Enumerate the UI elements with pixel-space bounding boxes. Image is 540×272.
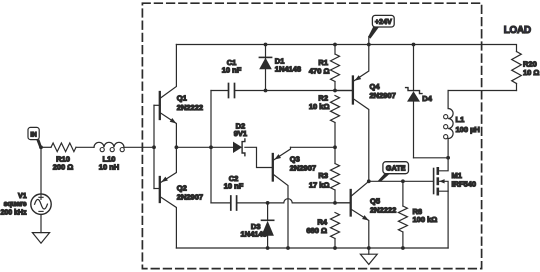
svg-text:10 nH: 10 nH	[99, 163, 119, 172]
capacitor C1	[222, 58, 242, 98]
transistor Q2 2N2907 (PNP)	[154, 147, 203, 248]
wire IN node down to V1	[40, 147, 42, 194]
svg-text:Q3: Q3	[290, 154, 300, 163]
capacitor C2	[224, 174, 244, 210]
wire IN node to R10	[39, 145, 51, 149]
svg-text:10 kΩ: 10 kΩ	[309, 102, 330, 111]
resistor R4	[306, 213, 339, 250]
svg-text:2N2907: 2N2907	[290, 164, 316, 173]
svg-text:IN: IN	[30, 131, 37, 138]
svg-text:Q4: Q4	[370, 82, 381, 91]
svg-text:Q2: Q2	[177, 184, 187, 193]
transistor Q4 2N2907 (PNP)	[335, 45, 396, 182]
zener diode D2 9V1	[233, 122, 247, 156]
svg-text:17 kΩ: 17 kΩ	[309, 181, 330, 190]
wire L10 to base node	[124, 145, 156, 149]
inductor L1	[444, 91, 480, 158]
svg-text:2N2907: 2N2907	[370, 91, 396, 100]
ground (source side)	[32, 233, 49, 244]
svg-text:+24V: +24V	[375, 19, 392, 26]
wire row C2 to Q5 base (with hop over Q3 collector)	[211, 199, 351, 205]
svg-text:10 Ω: 10 Ω	[523, 68, 539, 77]
svg-text:2N2222: 2N2222	[370, 206, 396, 215]
wire ground rail (bottom)	[176, 246, 448, 250]
resistor R3	[309, 147, 340, 203]
subcircuit boundary (dashed box)	[142, 3, 481, 268]
transistor Q3 2N2907 (PNP)	[273, 147, 316, 248]
wire D4 to drain node	[414, 156, 451, 160]
resistor R10	[51, 143, 76, 172]
svg-text:9V1: 9V1	[234, 129, 247, 138]
resistor R20	[512, 52, 540, 91]
inductor L10	[94, 142, 124, 171]
svg-text:L1: L1	[456, 115, 465, 124]
svg-text:1N4148: 1N4148	[241, 230, 267, 239]
svg-text:D4: D4	[422, 94, 432, 103]
wire row between C1 and Q4 base	[211, 89, 353, 93]
svg-text:square: square	[4, 201, 27, 208]
svg-text:IRF540: IRF540	[452, 179, 477, 188]
svg-text:470 Ω: 470 Ω	[309, 66, 330, 75]
svg-text:680 Ω: 680 Ω	[306, 226, 327, 235]
svg-text:Q1: Q1	[177, 94, 187, 103]
transistor Q5 2N2222 (NPN)	[335, 181, 396, 248]
svg-text:100 kΩ: 100 kΩ	[413, 215, 438, 224]
resistor R6	[398, 181, 437, 250]
wire C1/C2 left branch	[210, 91, 212, 203]
wire V1 to ground	[40, 214, 42, 232]
svg-text:10 nF: 10 nF	[224, 182, 244, 191]
wire +24V top rail	[176, 45, 516, 52]
svg-text:200 kHz: 200 kHz	[1, 210, 28, 217]
power flag +24V	[367, 15, 394, 46]
svg-text:2N2907: 2N2907	[177, 193, 203, 202]
resistor R1	[309, 43, 340, 91]
svg-text:GATE: GATE	[386, 165, 406, 173]
svg-text:10 nF: 10 nF	[222, 66, 242, 75]
svg-text:R3: R3	[318, 171, 328, 180]
svg-text:V1: V1	[18, 193, 27, 200]
wire base rail of Q1/Q2	[153, 105, 155, 188]
svg-text:1N4148: 1N4148	[275, 64, 301, 73]
wire gate row	[367, 179, 434, 183]
svg-text:100 µH: 100 µH	[456, 125, 480, 134]
svg-text:Q5: Q5	[370, 196, 380, 205]
svg-text:2N2222: 2N2222	[177, 103, 203, 112]
diode D1 1N4148	[259, 43, 301, 93]
wire Q3 emitter to R2/R3 node	[291, 145, 337, 149]
svg-text:LOAD: LOAD	[504, 25, 531, 36]
voltage source V1	[1, 193, 52, 217]
transistor Q1 2N2222 (NPN)	[154, 45, 203, 148]
svg-text:200 Ω: 200 Ω	[53, 163, 74, 172]
MOSFET M1 IRF540	[434, 158, 477, 248]
net flag IN	[28, 127, 42, 147]
ground (main)	[360, 246, 377, 264]
wire emitter node row	[175, 145, 234, 149]
wire R20 bottom to L1 top	[448, 90, 516, 92]
node label LOAD	[504, 25, 531, 36]
resistor R2	[309, 93, 340, 147]
diode D3 1N4148	[241, 203, 274, 248]
wire R10 to L10	[76, 146, 94, 148]
wire D2 to Q3 base	[245, 147, 273, 167]
net flag GATE	[378, 162, 409, 182]
diode D4	[406, 43, 433, 158]
